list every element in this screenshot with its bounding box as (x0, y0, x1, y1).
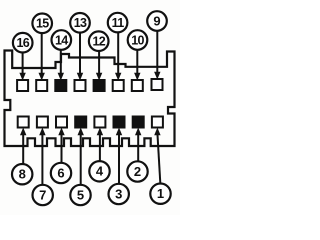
svg-text:8: 8 (19, 167, 26, 182)
pad 4 top (white) (75, 80, 86, 91)
pin 1 callout (150, 184, 170, 204)
pad 6 bottom (black) (114, 117, 125, 128)
pad 4 bottom (black) (75, 117, 86, 128)
svg-text:4: 4 (96, 164, 104, 179)
svg-text:10: 10 (131, 33, 144, 47)
wire 2 to pad7 bottom (135, 128, 141, 161)
pad 1 bottom (white) (18, 117, 29, 128)
svg-text:3: 3 (115, 186, 122, 201)
pin 11 callout (108, 13, 128, 33)
wire 13 to pad4 top (77, 33, 83, 81)
pin 3 callout (109, 184, 129, 204)
wire 10 to pad7 top (134, 50, 140, 81)
pin 12 callout (89, 31, 109, 51)
pad 2 bottom (white) (37, 117, 48, 128)
svg-text:2: 2 (134, 164, 141, 179)
svg-text:11: 11 (112, 16, 125, 30)
svg-text:16: 16 (16, 36, 29, 50)
pad 3 bottom (white) (56, 117, 67, 128)
wire 14 to pad3 top (58, 50, 64, 81)
wire 9 to pad8 top (154, 31, 160, 80)
pad 8 top (white) (152, 79, 163, 90)
pin 2 callout (127, 161, 147, 181)
wire 6 to pad3 bottom (58, 128, 64, 163)
pin 8 callout (12, 164, 32, 184)
connector body outline (5, 51, 175, 147)
wire 11 to pad6 top (115, 33, 121, 81)
svg-text:13: 13 (74, 16, 87, 30)
pin 14 callout (52, 30, 72, 50)
pin 9 callout (147, 11, 167, 31)
svg-text:9: 9 (153, 13, 160, 28)
wire 5 to pad4 bottom (78, 128, 84, 185)
pin 10 callout (128, 30, 148, 50)
pad 5 top (black) (94, 80, 105, 91)
wire 16 to pad1 top (19, 52, 25, 81)
pad 7 bottom (black) (133, 117, 144, 128)
pad 2 top (white) (36, 80, 47, 91)
svg-text:6: 6 (57, 165, 64, 180)
svg-text:14: 14 (55, 33, 68, 47)
pad 1 top (white) (17, 80, 28, 91)
pin 4 callout (89, 161, 109, 181)
pad 8 bottom (white) (152, 117, 163, 128)
wire 4 to pad5 bottom (97, 128, 103, 162)
svg-text:15: 15 (36, 17, 49, 31)
pin 16 callout (13, 33, 33, 53)
pad 3 top (black) (55, 80, 66, 91)
wire 1 to pad8 bottom (154, 128, 160, 184)
wire 8 to pad1 bottom (20, 128, 26, 165)
pin 5 callout (70, 185, 90, 205)
pad 6 top (white) (113, 80, 124, 91)
pin 15 callout (32, 13, 52, 33)
pin 13 callout (70, 13, 90, 33)
pin 7 callout (33, 185, 53, 205)
pin 6 callout (51, 163, 71, 183)
svg-text:1: 1 (157, 186, 164, 201)
wire 7 to pad2 bottom (39, 128, 45, 185)
svg-text:12: 12 (92, 35, 105, 49)
wire 15 to pad2 top (39, 33, 45, 81)
svg-text:7: 7 (39, 187, 46, 202)
pad 5 bottom (white) (94, 117, 105, 128)
wire 12 to pad5 top (96, 51, 102, 81)
svg-text:5: 5 (77, 187, 84, 202)
pad 7 top (white) (132, 80, 143, 91)
wire 3 to pad6 bottom (116, 128, 122, 184)
